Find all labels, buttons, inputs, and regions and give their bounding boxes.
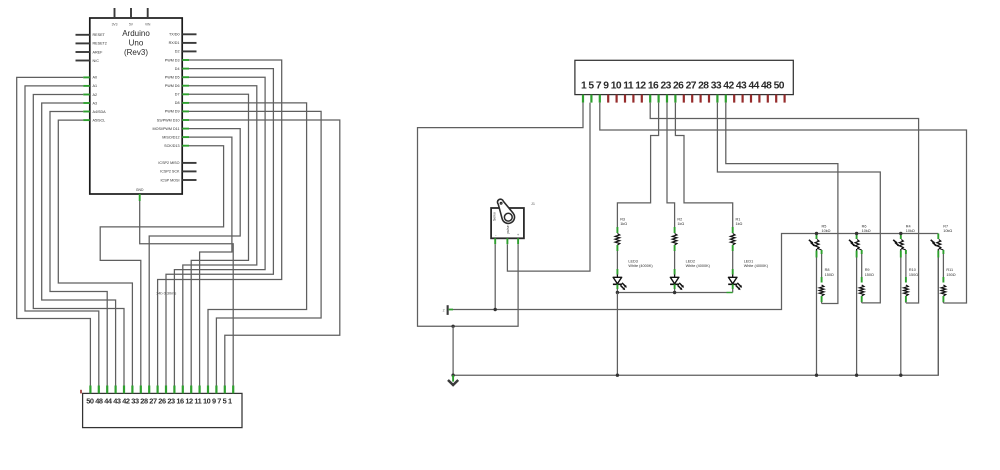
svg-text:R8: R8 [825, 268, 830, 272]
svg-text:RESET: RESET [93, 33, 106, 37]
Arduino top pins 3V3 5V VIN [112, 8, 152, 26]
Arduino Uno title [122, 29, 150, 57]
svg-text:A4/SDA: A4/SDA [93, 110, 107, 114]
wire D7 to J2 pin 11 [189, 94, 249, 385]
svg-text:150Ω: 150Ω [909, 273, 918, 277]
Arduino Uno A1 body [90, 18, 182, 194]
svg-text:R3: R3 [620, 218, 625, 222]
svg-text:+: + [517, 233, 519, 237]
junction ground rail b2 [855, 374, 858, 377]
svg-text:AREF: AREF [93, 50, 104, 54]
connector J2 body [83, 393, 242, 427]
svg-text:PWM D5: PWM D5 [165, 76, 180, 80]
svg-text:SS/PWM D10: SS/PWM D10 [157, 118, 180, 122]
wire LED cathode rail [617, 292, 732, 294]
svg-text:150Ω: 150Ω [946, 273, 955, 277]
svg-text:1kΩ: 1kΩ [620, 222, 627, 226]
junction node R5 [815, 232, 818, 235]
svg-text:R6: R6 [862, 224, 867, 228]
resistor R1 1k [730, 218, 742, 269]
connector J3 body [575, 60, 793, 94]
wire J3 pin 23 to R10 column [650, 103, 918, 303]
svg-text:R10: R10 [909, 268, 916, 272]
resistor R9 150 [859, 250, 874, 303]
junction ground loop [451, 325, 454, 328]
svg-text:RX/D1: RX/D1 [169, 41, 180, 45]
svg-text:MISO/D12: MISO/D12 [162, 135, 179, 139]
LED LED2 White 4000K [670, 260, 711, 293]
svg-text:1 5 7 9 10 11 12 16 23 26 27 2: 1 5 7 9 10 11 12 16 23 26 27 28 33 42 43… [581, 80, 785, 91]
ground symbol [448, 374, 458, 386]
connector J3 pin labels [581, 80, 785, 91]
svg-text:D7: D7 [175, 93, 180, 97]
wire D13 to J2 pin 28 [100, 146, 223, 386]
wire J3 pin 7 to R11 column [600, 103, 967, 303]
wire D12 to J2 pin 10 [189, 137, 232, 385]
svg-text:TX/D0: TX/D0 [169, 33, 179, 37]
svg-text:Uno: Uno [129, 39, 144, 48]
Arduino analog pins A0-A5 [83, 76, 106, 123]
wire R7 emitter to ground rail [937, 251, 939, 376]
wire D6 to J2 pin 12 [183, 86, 257, 386]
wire D10 to J2 pin 5 [189, 120, 340, 386]
svg-text:VIN: VIN [145, 22, 151, 26]
servo M1 [491, 199, 524, 238]
svg-text:White (4000K): White (4000K) [744, 264, 769, 268]
svg-text:1kΩ: 1kΩ [736, 222, 743, 226]
wire R6 emitter to ground rail [856, 251, 858, 376]
svg-text:14b 0.30ms: 14b 0.30ms [156, 291, 176, 296]
wire servo ground pin to rail [494, 244, 496, 309]
wire J3 pin 5 to servo pulse [507, 103, 590, 272]
wire LED rail to ground rail [616, 293, 618, 376]
LED LED1 White 4000K [728, 260, 769, 293]
junction ground rail b3 [899, 374, 902, 377]
svg-text:LED1: LED1 [744, 260, 754, 264]
wire GND to J2 pin 1 [140, 201, 234, 386]
svg-text:D4: D4 [175, 67, 180, 71]
svg-text:R1: R1 [736, 218, 741, 222]
Arduino left pins RESET RESET2 AREF N/C [76, 33, 107, 63]
wire A3 to J2 pin 43 [42, 103, 116, 386]
svg-text:Arduino: Arduino [122, 29, 150, 38]
svg-text:PWM D9: PWM D9 [165, 110, 180, 114]
wire R5 emitter to ground rail [816, 251, 818, 376]
wire A5 to J2 pin 33 [58, 120, 132, 385]
wire A1 to J2 pin 48 [25, 86, 99, 386]
svg-text:LED3: LED3 [628, 260, 638, 264]
junction LED rail left [616, 291, 619, 294]
svg-text:150Ω: 150Ω [825, 273, 834, 277]
phototransistor R4 10k [893, 224, 915, 250]
svg-text:A3: A3 [93, 101, 98, 105]
svg-text:LED2: LED2 [686, 260, 696, 264]
svg-text:10kΩ: 10kΩ [822, 229, 831, 233]
junction ground rail b1 [815, 374, 818, 377]
connector J2 pin labels [86, 397, 232, 406]
svg-text:50 48 44 43 42 33 28 27 26 23: 50 48 44 43 42 33 28 27 26 23 16 12 11 1… [86, 397, 232, 406]
svg-text:R5: R5 [822, 224, 827, 228]
svg-text:R11: R11 [946, 268, 953, 272]
wire R4 emitter to ground rail [900, 251, 902, 376]
svg-text:R9: R9 [865, 268, 870, 272]
svg-text:RESET2: RESET2 [93, 42, 107, 46]
connector J2 stray red pin [80, 390, 82, 394]
svg-text:MOSI/PWM D11: MOSI/PWM D11 [153, 127, 180, 131]
svg-text:10kΩ: 10kΩ [862, 229, 871, 233]
wire A2 to J2 pin 42 [33, 95, 124, 386]
svg-text:J1: J1 [531, 202, 535, 206]
svg-text:10kΩ: 10kΩ [906, 229, 915, 233]
svg-text:2: 2 [443, 308, 445, 312]
wire J3 pin 1 to servo ground loop [418, 103, 584, 327]
wire A4 to J2 pin 44 [50, 112, 107, 386]
wire ground loop to ground rail [452, 326, 454, 375]
wire D11 to J2 pin 27 [149, 129, 240, 386]
resistor R10 150 [904, 250, 919, 303]
wire ground rail [453, 258, 938, 376]
connector J3 pin stubs [583, 95, 785, 103]
svg-text:A0: A0 [93, 76, 98, 80]
servo M1 pin stubs [495, 238, 518, 244]
svg-text:D2: D2 [175, 50, 180, 54]
phototransistor R6 10k [849, 224, 871, 250]
wire label on A4 net [156, 291, 176, 296]
resistor R8 150 [819, 250, 834, 304]
net label 2 stub [443, 305, 453, 315]
svg-text:10kΩ: 10kΩ [943, 229, 952, 233]
junction ground rail LED [616, 374, 619, 377]
wire D8 to J2 pin 9 [189, 103, 307, 386]
connector J2 pin stubs [90, 386, 233, 394]
Arduino ICSP pins [158, 161, 196, 182]
svg-text:GND: GND [136, 188, 144, 192]
svg-text:ICSP2 SCK: ICSP2 SCK [160, 170, 180, 174]
svg-text:ICSP2 MISO: ICSP2 MISO [158, 161, 179, 165]
servo M1 designator [531, 202, 535, 206]
svg-text:R2: R2 [677, 218, 682, 222]
junction servo rail [494, 308, 497, 311]
svg-text:ICSP MOSI: ICSP MOSI [161, 178, 180, 182]
wire J3 pin 28 to R1 [675, 103, 732, 227]
resistor R3 1k [615, 218, 627, 269]
svg-text:3V3: 3V3 [112, 22, 118, 26]
svg-text:R7: R7 [943, 224, 948, 228]
wire D9 to J2 pin 7 [189, 111, 321, 385]
resistor R11 150 [941, 250, 956, 303]
wire J3 pin 26 to R3 [617, 103, 658, 227]
svg-text:pulse: pulse [506, 225, 510, 233]
junction LED rail mid [673, 291, 676, 294]
svg-text:SCK/D13: SCK/D13 [164, 144, 179, 148]
svg-text:N/C: N/C [93, 59, 100, 63]
svg-text:PWM D6: PWM D6 [165, 84, 180, 88]
svg-text:White (4000K): White (4000K) [686, 264, 711, 268]
svg-text:A5/SCL: A5/SCL [93, 118, 106, 122]
phototransistor R5 10k [809, 224, 831, 250]
wire J3 pin 42 to R9 column [717, 103, 880, 303]
wire A0 to J2 pin 50 [17, 77, 91, 385]
wire J3 pin 43 to R8 column [726, 103, 838, 304]
wire VCC rail to branch nodes [453, 234, 938, 310]
svg-text:White (4000K): White (4000K) [628, 264, 653, 268]
svg-text:A2: A2 [93, 93, 98, 97]
wire J3 pin 27 to R2 [667, 103, 675, 227]
svg-text:R4: R4 [906, 224, 911, 228]
resistor R2 1k [672, 218, 684, 269]
svg-text:150Ω: 150Ω [865, 273, 874, 277]
Arduino digital pins D0-D13 [153, 33, 197, 148]
svg-text:1kΩ: 1kΩ [677, 222, 684, 226]
wire D4 to J2 pin 23 [166, 69, 273, 386]
wire D5 to J2 pin 16 [174, 77, 265, 385]
junction node R6 [855, 232, 858, 235]
svg-text:(Rev3): (Rev3) [124, 48, 148, 57]
phototransistor R7 10k [931, 224, 953, 250]
svg-text:PWM D3: PWM D3 [165, 58, 180, 62]
wire D3 to J2 pin 26 [158, 60, 282, 386]
svg-text:D8: D8 [175, 101, 180, 105]
svg-text:A1: A1 [93, 84, 98, 88]
LED LED3 White 4000K [613, 260, 654, 293]
junction node R4 [899, 232, 902, 235]
svg-text:Servo: Servo [493, 212, 497, 221]
Arduino GND pin [136, 188, 144, 201]
